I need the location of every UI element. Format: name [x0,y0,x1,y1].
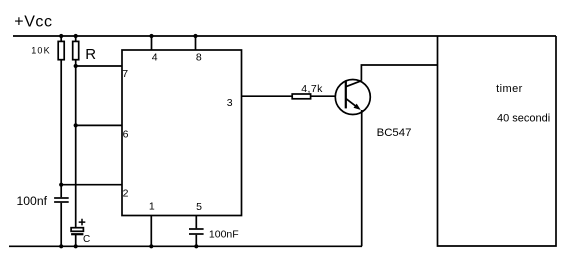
svg-text:timer: timer [496,83,523,95]
svg-text:6: 6 [123,128,129,140]
svg-text:4,7k: 4,7k [301,83,323,95]
svg-text:40 secondi: 40 secondi [497,113,550,125]
svg-text:5: 5 [196,201,202,213]
svg-text:+Vcc: +Vcc [14,14,52,31]
svg-text:100nf: 100nf [17,194,48,208]
svg-text:100nF: 100nF [209,229,239,241]
svg-text:7: 7 [122,68,128,80]
svg-text:4: 4 [152,52,158,64]
svg-text:BC547: BC547 [377,127,412,139]
svg-text:10K: 10K [31,45,51,55]
svg-text:8: 8 [196,52,202,64]
svg-text:2: 2 [123,187,129,199]
svg-text:R: R [85,46,96,63]
svg-text:C: C [83,234,90,245]
svg-text:1: 1 [149,201,155,213]
svg-text:3: 3 [227,97,233,109]
